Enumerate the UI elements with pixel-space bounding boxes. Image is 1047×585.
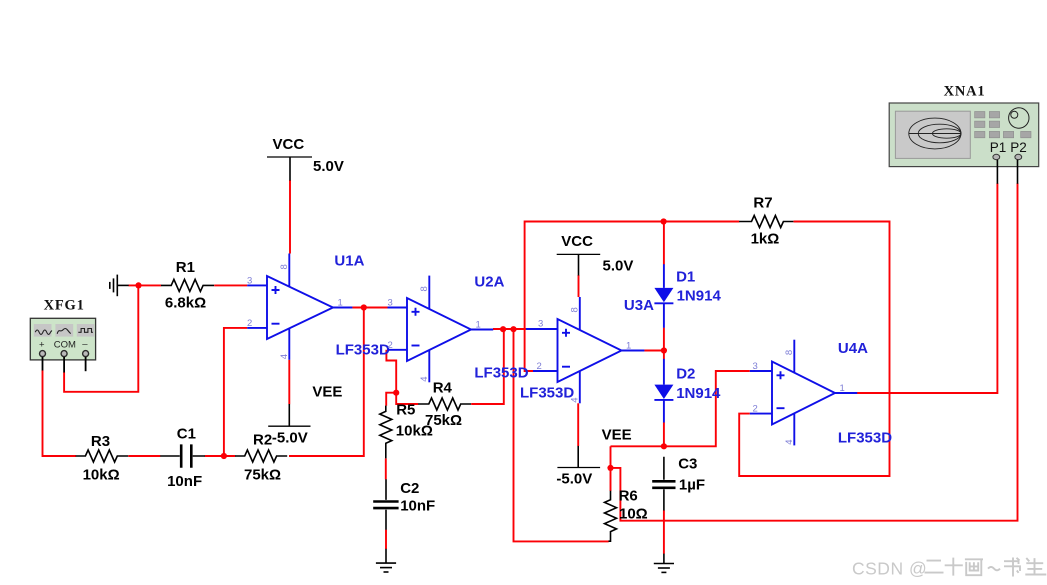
node C1-R2-U1A pin2 xyxy=(221,453,227,459)
svg-text:1N914: 1N914 xyxy=(677,288,722,305)
power VEE (U1A) xyxy=(268,384,342,447)
wire R3 right to C1 left xyxy=(128,455,160,457)
op-amp U3A labels xyxy=(520,297,654,402)
resistor R2 xyxy=(235,450,287,462)
svg-text:2: 2 xyxy=(247,318,252,329)
wire R5 bottom to C2 top xyxy=(385,458,387,479)
node U1A output feedback xyxy=(361,304,367,310)
svg-text:1µF: 1µF xyxy=(679,477,705,494)
svg-text:10Ω: 10Ω xyxy=(619,506,648,523)
ground (input, rotated left) xyxy=(110,275,129,297)
resistor R3 xyxy=(76,450,129,462)
svg-text:D2: D2 xyxy=(676,366,695,383)
resistor R4 xyxy=(418,398,471,410)
op-amp U2A pin numbers xyxy=(388,286,481,381)
svg-text:8: 8 xyxy=(569,307,580,312)
svg-text:VEE: VEE xyxy=(312,384,342,401)
svg-text:D1: D1 xyxy=(676,269,695,286)
svg-text:U1A: U1A xyxy=(334,253,364,270)
node R7-D1 xyxy=(661,218,667,224)
svg-text:-5.0V: -5.0V xyxy=(272,430,308,447)
svg-text:4: 4 xyxy=(279,354,290,359)
svg-text:5.0V: 5.0V xyxy=(313,158,344,175)
wire VCC rail to U3A pin 8 xyxy=(578,275,580,297)
svg-text:6.8kΩ: 6.8kΩ xyxy=(165,295,206,312)
op-amp U2A labels xyxy=(474,274,528,382)
wire C1 right to R2 left, node to U1A pin 2 xyxy=(205,328,247,456)
resistor R6 (vertical) xyxy=(605,491,617,541)
svg-text:-5.0V: -5.0V xyxy=(556,471,592,488)
wire D2 cathode down to output rail xyxy=(663,422,665,446)
svg-text:U2A: U2A xyxy=(474,274,504,291)
svg-text:U4A: U4A xyxy=(838,340,868,357)
wire node to D1 anode xyxy=(663,222,665,265)
svg-text:LF353D: LF353D xyxy=(838,430,892,447)
svg-text:10nF: 10nF xyxy=(400,498,435,515)
op-amp U4A pin numbers xyxy=(753,350,845,445)
wire U4A output to P1 xyxy=(857,183,997,393)
op-amp U1A labels xyxy=(334,253,390,359)
svg-text:P1: P1 xyxy=(990,140,1007,155)
svg-text:5.0V: 5.0V xyxy=(603,257,634,274)
network analyzer XNA1 xyxy=(889,84,1038,184)
svg-text:LF353D: LF353D xyxy=(520,385,574,402)
wire output rail down to R6 top and to P2 xyxy=(611,183,1018,520)
svg-text:10kΩ: 10kΩ xyxy=(396,423,433,440)
power VCC (U1A) xyxy=(267,136,344,181)
wire U2A output to U3A pin 3 xyxy=(493,328,527,330)
wire R1 right to U1A pin 3 xyxy=(214,284,247,286)
resistor R5 (vertical) xyxy=(380,406,392,459)
svg-text:3: 3 xyxy=(247,276,252,287)
svg-text:2: 2 xyxy=(537,361,542,372)
svg-text:1: 1 xyxy=(840,383,845,394)
svg-text:3: 3 xyxy=(538,319,543,330)
svg-text:C2: C2 xyxy=(400,480,419,497)
diode D1 labels xyxy=(676,269,721,305)
svg-text:XNA1: XNA1 xyxy=(944,84,986,100)
ground (below C3) xyxy=(654,554,674,573)
function generator XFG1 xyxy=(30,298,95,373)
node D2-C3 rail xyxy=(661,443,667,449)
svg-text:10nF: 10nF xyxy=(167,473,202,490)
power VCC (U3A) xyxy=(557,233,634,276)
svg-text:R6: R6 xyxy=(619,488,638,505)
svg-text:C3: C3 xyxy=(678,456,697,473)
svg-text:P2: P2 xyxy=(1010,140,1027,155)
ground (below C2) xyxy=(376,549,396,572)
svg-text:LF353D: LF353D xyxy=(474,365,528,382)
wire U3A output to D1-D2 junction xyxy=(644,328,664,360)
svg-text:–: – xyxy=(82,339,88,350)
svg-text:1: 1 xyxy=(476,320,481,331)
wire VCC rail to U1A pin 8 xyxy=(289,180,291,254)
diode D1 xyxy=(654,264,673,328)
JUNCTION DOTS xyxy=(135,218,667,471)
svg-text:4: 4 xyxy=(784,440,795,445)
node U3A output diodes xyxy=(661,347,667,353)
wire U1A output to U2A pin 3 xyxy=(352,307,387,309)
svg-text:VCC: VCC xyxy=(273,136,305,153)
wire R4 right up to U2A output node xyxy=(471,329,504,404)
wire R7 right loop down to U4A pin 2 xyxy=(739,222,889,477)
wire C2 bottom to ground xyxy=(385,530,387,549)
wire U2A pin 2 to R4/R5 node xyxy=(386,350,418,406)
wire U2A output node down to R6 bottom xyxy=(514,329,609,541)
capacitor C3 xyxy=(652,457,675,511)
svg-text:VEE: VEE xyxy=(602,427,632,444)
diode D2 xyxy=(654,359,673,423)
capacitor C2 xyxy=(373,479,398,530)
svg-text:1: 1 xyxy=(338,298,343,309)
svg-text:3: 3 xyxy=(753,361,758,372)
power VEE (U3A) xyxy=(556,427,631,488)
op-amp U4A labels xyxy=(838,340,892,447)
svg-text:4: 4 xyxy=(419,376,430,381)
svg-text:8: 8 xyxy=(784,350,795,355)
wire output rail to U4A pin 3 xyxy=(611,371,750,446)
svg-text:COM: COM xyxy=(54,340,76,351)
wire XFG1 plus terminal to R3 xyxy=(43,370,77,456)
node input ground junction xyxy=(135,282,141,288)
svg-text:C1: C1 xyxy=(177,426,196,443)
wire R2 right up to U1A output node xyxy=(289,308,364,457)
op-amp U1A pin numbers xyxy=(247,264,343,359)
diode D2 labels xyxy=(676,366,721,403)
node U2A output a xyxy=(500,326,506,332)
svg-text:R2: R2 xyxy=(253,432,272,449)
svg-text:2: 2 xyxy=(753,404,758,415)
svg-text:LF353D: LF353D xyxy=(336,342,390,359)
wire ground node to R1 left xyxy=(129,284,162,286)
wire U3A pin 4 to VEE symbol xyxy=(577,403,579,446)
resistor R7 xyxy=(739,216,793,228)
svg-text:R1: R1 xyxy=(176,259,195,276)
node R6-P2 branch xyxy=(607,465,613,471)
wire C3 bottom to ground xyxy=(663,510,665,554)
wire XFG1 COM terminal to input ground node xyxy=(64,285,138,391)
svg-text:R4: R4 xyxy=(433,380,453,397)
svg-text:2: 2 xyxy=(388,340,393,351)
svg-text:U3A: U3A xyxy=(624,297,654,314)
capacitor C1 xyxy=(160,444,205,467)
op-amp U1A xyxy=(247,254,352,360)
resistor R1 xyxy=(161,279,214,291)
svg-text:R3: R3 xyxy=(91,433,110,450)
node R4-R5-U2A pin2 xyxy=(393,390,399,396)
svg-text:10kΩ: 10kΩ xyxy=(83,467,120,484)
svg-text:CSDN @: CSDN @ xyxy=(852,559,927,579)
svg-text:8: 8 xyxy=(279,264,290,269)
svg-text:R7: R7 xyxy=(753,195,772,212)
op-amp U3A xyxy=(526,297,644,403)
svg-text:VCC: VCC xyxy=(561,233,593,250)
svg-text:+: + xyxy=(39,340,45,351)
wire U1A pin 4 to VEE symbol xyxy=(288,360,290,404)
COMPONENT TEXT LABELS xyxy=(83,195,780,523)
svg-text:8: 8 xyxy=(419,286,430,291)
op-amp U3A pin numbers xyxy=(537,307,632,402)
svg-text:3: 3 xyxy=(388,298,393,309)
op-amp U4A xyxy=(750,340,857,446)
node U2A output b xyxy=(510,326,516,332)
svg-text:XFG1: XFG1 xyxy=(44,298,85,314)
svg-text:75kΩ: 75kΩ xyxy=(244,467,281,484)
svg-text:1N914: 1N914 xyxy=(676,385,721,402)
svg-text:1kΩ: 1kΩ xyxy=(751,231,780,248)
wire U3A pin 2 loop up to R7 left / D1 anode node xyxy=(525,222,740,372)
svg-text:R5: R5 xyxy=(396,402,415,419)
op-amp U2A xyxy=(388,276,494,383)
svg-text:1: 1 xyxy=(626,341,631,352)
watermark CSDN xyxy=(852,558,1046,579)
